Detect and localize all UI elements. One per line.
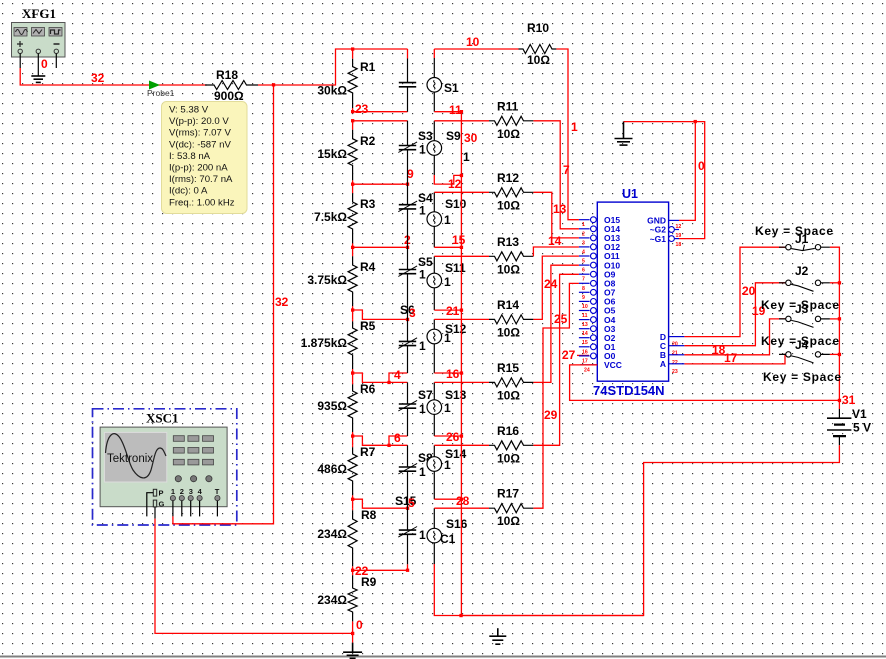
svg-text:8: 8 — [582, 286, 585, 292]
wire net 4 jog — [353, 373, 408, 382]
svg-text:7: 7 — [582, 277, 585, 283]
svg-text:10Ω: 10Ω — [497, 514, 520, 528]
controlled switch S11 — [427, 261, 466, 289]
svg-text:1: 1 — [463, 150, 470, 164]
wire R16 to O9 — [533, 274, 579, 445]
svg-text:1: 1 — [444, 213, 451, 227]
wire S12 bottom lead — [433, 344, 435, 373]
svg-text:1: 1 — [419, 204, 426, 218]
resistor R1 — [317, 49, 375, 112]
svg-text:17: 17 — [582, 358, 588, 364]
wire XFG1 - terminal stub — [55, 54, 57, 69]
svg-text:900Ω: 900Ω — [214, 89, 244, 103]
wire S11 bottom lead — [433, 288, 435, 310]
svg-text:6: 6 — [394, 431, 401, 445]
junction N2 — [351, 183, 354, 186]
switch S8 — [398, 445, 433, 508]
wire S12 to net30 — [434, 372, 461, 374]
svg-text:22: 22 — [672, 360, 678, 366]
svg-text:1: 1 — [444, 275, 451, 289]
svg-text:486Ω: 486Ω — [317, 462, 347, 476]
svg-text:R5: R5 — [360, 319, 376, 333]
wire S14 top lead — [433, 445, 435, 456]
svg-text:4: 4 — [394, 368, 401, 382]
resistor R15 — [489, 361, 533, 403]
junction ground net — [694, 120, 697, 123]
svg-text:1: 1 — [419, 268, 426, 282]
resistor R3 — [314, 184, 376, 247]
wire S9 to net30 staircase — [434, 175, 461, 184]
wire S12 top lead — [433, 319, 435, 329]
U1 pin O5 — [579, 306, 616, 319]
junction N1a — [351, 110, 354, 113]
svg-text:16: 16 — [582, 349, 588, 355]
wire N6 upper link — [389, 436, 408, 445]
svg-text:30: 30 — [464, 131, 478, 145]
svg-text:22: 22 — [355, 564, 369, 578]
junction net30 r5 — [460, 371, 463, 374]
svg-text:V: 5.38 V: V: 5.38 V — [169, 105, 209, 116]
wire net 5 jog — [353, 499, 408, 508]
svg-text:1: 1 — [419, 465, 426, 479]
U1 pin C — [660, 341, 685, 357]
U1 pin O8 — [579, 279, 616, 292]
wire XSC1 ch4 stub — [199, 501, 201, 517]
svg-text:5: 5 — [582, 259, 585, 265]
svg-text:0: 0 — [41, 57, 48, 71]
U1 pin O1 — [579, 342, 616, 355]
resistor R8 — [317, 508, 376, 570]
U1 pin O2 — [579, 333, 616, 346]
wire S14 bottom lead — [433, 471, 435, 499]
wire net 0 bottom — [155, 632, 352, 634]
wire S13 bottom lead — [433, 414, 435, 436]
svg-text:3: 3 — [409, 306, 416, 320]
svg-text:S1: S1 — [444, 81, 459, 95]
U1 pin O13 — [579, 233, 620, 246]
junction N8 — [351, 569, 354, 572]
wire XFG1 + terminal down — [19, 54, 21, 69]
wire net 17 — [684, 354, 785, 364]
svg-text:S7: S7 — [418, 388, 433, 402]
svg-text:V(dc): -587 nV: V(dc): -587 nV — [169, 139, 231, 150]
wire XSC1 ch1 to probe net — [173, 85, 274, 524]
svg-text:S3: S3 — [418, 129, 433, 143]
wire XSC1 G down — [154, 507, 156, 519]
net stub O0 — [577, 354, 589, 356]
IC U1 74STD154N body — [593, 187, 669, 398]
svg-text:J1: J1 — [795, 232, 809, 246]
svg-text:10: 10 — [582, 304, 588, 310]
wire S9 top lead — [433, 121, 435, 141]
svg-text:20: 20 — [672, 342, 678, 348]
switch J3 — [779, 302, 830, 327]
resistor R14 — [489, 298, 533, 340]
svg-text:P: P — [159, 489, 164, 498]
junction N1b — [351, 119, 354, 122]
U1 pin B — [660, 350, 685, 366]
wire XSC1 ch2 stub — [181, 501, 183, 517]
switch S5 — [398, 247, 433, 319]
svg-text:R16: R16 — [497, 424, 519, 438]
wire net 20 — [684, 247, 785, 336]
svg-text:1: 1 — [582, 222, 585, 228]
svg-text:1: 1 — [419, 528, 426, 542]
resistor R4 — [307, 247, 375, 310]
svg-text:30kΩ: 30kΩ — [317, 84, 347, 98]
junction rail J3 — [838, 317, 841, 320]
svg-text:935Ω: 935Ω — [317, 399, 347, 413]
junction N3 — [351, 246, 354, 249]
resistor R13 — [489, 235, 533, 276]
svg-text:1: 1 — [444, 401, 451, 415]
U1 pin O0 — [579, 351, 616, 364]
svg-text:1: 1 — [444, 331, 451, 345]
svg-text:5 V: 5 V — [853, 421, 871, 435]
controlled switch S10 — [427, 197, 467, 227]
svg-text:10Ω: 10Ω — [527, 53, 550, 67]
wire XSC1 ch1 stub — [172, 501, 174, 517]
wire G1 pin up — [624, 122, 705, 239]
switch S4 — [398, 184, 433, 247]
wire J3 to rail — [830, 318, 840, 320]
wire R15 to O10 — [533, 265, 579, 382]
svg-text:1: 1 — [419, 402, 426, 416]
junction rail J2 — [838, 281, 841, 284]
svg-text:T: T — [215, 487, 220, 496]
wire net 23 lower — [353, 120, 408, 122]
wire net 22 — [353, 564, 408, 570]
U1 pin O9 — [579, 269, 616, 282]
wire net 3 jog — [353, 310, 408, 319]
svg-text:28: 28 — [456, 494, 470, 508]
resistor R12 — [489, 171, 533, 213]
wire XSC1 ch3 stub — [190, 501, 192, 517]
wire rail stub to cap — [407, 49, 409, 59]
svg-text:10Ω: 10Ω — [497, 127, 520, 141]
svg-text:G: G — [159, 499, 165, 508]
wire net 19 — [684, 283, 785, 346]
wire R12 to O13 — [533, 192, 579, 238]
U1 pin O14 — [579, 224, 620, 237]
wire S to R15 — [434, 381, 489, 383]
svg-text:32: 32 — [275, 295, 289, 309]
wire top rail net 10 — [353, 48, 408, 50]
wire S11 top lead — [433, 256, 435, 273]
svg-text:R12: R12 — [497, 171, 519, 185]
U1 pin O7 — [579, 288, 616, 301]
wire S14 to net30 — [434, 498, 461, 500]
U1 pin D — [660, 332, 685, 348]
wire N5 rail stub — [352, 373, 354, 382]
junction net30 r4 — [460, 309, 463, 312]
svg-text:31: 31 — [842, 393, 856, 407]
svg-text:R1: R1 — [360, 60, 376, 74]
wire VCC to rail — [570, 365, 840, 401]
svg-text:24: 24 — [584, 368, 590, 374]
wire net 6 jog — [353, 436, 408, 445]
svg-text:32: 32 — [91, 71, 105, 85]
svg-text:26: 26 — [446, 430, 460, 444]
svg-text:S9: S9 — [446, 129, 461, 143]
svg-text:1: 1 — [571, 120, 578, 134]
resistor R2 — [317, 121, 375, 184]
svg-text:23: 23 — [355, 102, 369, 116]
controlled switch S14 — [427, 447, 467, 472]
svg-text:3.75kΩ: 3.75kΩ — [307, 273, 347, 287]
svg-text:11: 11 — [449, 103, 462, 117]
wire bottom rail — [461, 615, 644, 617]
junction N5 mid — [387, 381, 390, 384]
svg-text:VCC: VCC — [604, 360, 622, 370]
svg-text:R4: R4 — [360, 260, 376, 274]
wire S13 top lead — [433, 382, 435, 399]
svg-text:I(rms): 70.7 nA: I(rms): 70.7 nA — [169, 174, 233, 185]
controlled switch S12 — [427, 322, 467, 345]
resistor R5 — [301, 319, 376, 373]
junction N7 — [351, 498, 354, 501]
wire N4 rail stub — [352, 310, 354, 319]
svg-text:23: 23 — [672, 369, 678, 375]
svg-text:27: 27 — [562, 348, 576, 362]
svg-text:S10: S10 — [445, 197, 467, 211]
switch J4 — [779, 338, 830, 363]
wire S to R13 — [434, 255, 489, 257]
switch S6 — [398, 303, 426, 373]
svg-text:V(rms): 7.07 V: V(rms): 7.07 V — [169, 128, 231, 139]
U1 pin ~G1 — [650, 234, 682, 248]
svg-text:Key = Space: Key = Space — [763, 370, 842, 384]
sheet bottom edge — [0, 656, 886, 658]
svg-text:R2: R2 — [360, 134, 376, 148]
svg-text:0: 0 — [356, 618, 363, 632]
oscilloscope XSC1 — [93, 409, 237, 525]
U1 pin O11 — [579, 251, 620, 264]
svg-text:V1: V1 — [852, 407, 867, 421]
wire R10 to net1 vertical — [556, 49, 579, 220]
svg-text:7: 7 — [563, 163, 570, 177]
wire S9 bottom lead — [433, 155, 435, 175]
svg-text:234Ω: 234Ω — [317, 593, 347, 607]
resistor R11 — [489, 99, 533, 141]
wire net 2 — [353, 246, 408, 248]
resistor R18 — [205, 68, 258, 103]
svg-text:17: 17 — [724, 351, 738, 365]
svg-text:R17: R17 — [497, 487, 519, 501]
svg-text:U1: U1 — [622, 187, 638, 201]
wire net 11 — [434, 111, 461, 113]
wire S to R17 — [434, 507, 489, 509]
wire S11 to net30 — [434, 309, 461, 311]
junction net30 r7 — [460, 498, 463, 501]
probe Probe1 arrow — [147, 81, 175, 99]
svg-text:15: 15 — [582, 340, 588, 346]
svg-text:18: 18 — [676, 242, 682, 248]
wire J4 to rail — [830, 353, 840, 355]
wire net 9 — [353, 183, 408, 185]
svg-text:Freq.: 1.00 kHz: Freq.: 1.00 kHz — [169, 197, 235, 208]
svg-text:R15: R15 — [497, 361, 519, 375]
svg-text:7.5kΩ: 7.5kΩ — [314, 210, 347, 224]
wire S16 bottom to rail — [434, 564, 461, 616]
svg-text:9: 9 — [582, 295, 585, 301]
controlled switch S9 — [427, 129, 470, 164]
wire S16 bottom lead — [433, 543, 435, 564]
svg-text:1.875kΩ: 1.875kΩ — [301, 336, 348, 350]
ground bottom middle — [489, 628, 506, 644]
svg-text:R18: R18 — [216, 68, 238, 82]
wire S10 top lead — [433, 192, 435, 212]
U1 pin O3 — [579, 324, 616, 337]
svg-text:10Ω: 10Ω — [497, 388, 520, 402]
junction net30 r6 — [460, 434, 463, 437]
U1 pin GND — [647, 216, 681, 230]
svg-text:1: 1 — [444, 458, 451, 472]
wire GND pin up — [679, 122, 695, 221]
junction N6 mid — [387, 444, 390, 447]
svg-text:13: 13 — [582, 322, 588, 328]
U1 pin ~G2 — [650, 225, 682, 239]
svg-text:11: 11 — [582, 313, 588, 319]
svg-text:1: 1 — [419, 339, 426, 353]
wire net 23 upper — [353, 111, 408, 113]
resistor R7 — [317, 445, 375, 499]
resistor R17 — [489, 487, 533, 529]
wire S to R11 — [434, 120, 489, 122]
controlled switch S13 — [427, 388, 467, 415]
wire S to R14 — [434, 318, 489, 320]
svg-text:R11: R11 — [497, 99, 519, 113]
resistor R9 — [317, 570, 376, 633]
svg-text:16: 16 — [446, 367, 460, 381]
wire S1 bottom lead — [433, 92, 435, 112]
svg-text:S16: S16 — [446, 517, 468, 531]
U1 pin O15 — [579, 215, 620, 228]
wire net 32 from XFG1 to R18 — [20, 68, 207, 85]
svg-text:4: 4 — [582, 249, 585, 255]
svg-text:25: 25 — [554, 312, 568, 326]
junction net30 r3 — [460, 246, 463, 249]
svg-text:~G1: ~G1 — [650, 234, 667, 244]
ground below XFG1 — [31, 76, 45, 82]
wire N7 rail stub — [352, 499, 354, 508]
svg-text:R10: R10 — [527, 21, 549, 35]
svg-text:1: 1 — [171, 487, 175, 496]
junction at probe vertical — [272, 83, 275, 86]
wire S to R12 — [434, 191, 489, 193]
svg-text:2: 2 — [180, 487, 184, 496]
svg-text:I: 53.8 nA: I: 53.8 nA — [169, 151, 211, 162]
wire S16 top lead — [433, 508, 435, 528]
svg-text:20: 20 — [742, 284, 756, 298]
svg-text:Probe1: Probe1 — [147, 88, 175, 98]
controlled switch S16 — [427, 517, 468, 546]
svg-text:S11: S11 — [445, 261, 466, 275]
svg-text:0: 0 — [698, 159, 705, 173]
switch S3 — [398, 121, 433, 184]
junction N8 right — [406, 569, 409, 572]
wire N5 upper link — [389, 373, 408, 382]
junction rail J4 — [838, 353, 841, 356]
svg-text:V(p-p): 20.0 V: V(p-p): 20.0 V — [169, 116, 229, 127]
svg-text:10Ω: 10Ω — [497, 325, 520, 339]
svg-text:10: 10 — [466, 35, 480, 49]
svg-text:21: 21 — [672, 351, 678, 357]
svg-text:R6: R6 — [360, 382, 376, 396]
wire N6 rail stub — [352, 436, 354, 445]
junction net 31 — [838, 399, 841, 402]
junction bottom rail — [459, 614, 462, 617]
svg-text:J4: J4 — [795, 338, 809, 352]
wire S to R16 — [434, 444, 489, 446]
probe measurement box Probe1 — [162, 102, 248, 214]
svg-text:3: 3 — [582, 240, 585, 246]
svg-text:2: 2 — [582, 231, 585, 237]
wire S10 bottom lead — [433, 226, 435, 247]
wire XSC1 G to bottom rail — [154, 519, 156, 634]
svg-text:29: 29 — [544, 408, 558, 422]
U1 pin A — [660, 359, 685, 375]
svg-text:XFG1: XFG1 — [22, 6, 56, 21]
svg-text:5: 5 — [408, 496, 415, 510]
wire J1 to rail — [830, 247, 840, 400]
svg-text:15kΩ: 15kΩ — [317, 147, 347, 161]
wire S10 to net30 — [434, 246, 461, 248]
svg-text:S13: S13 — [445, 388, 467, 402]
junction bottom node — [351, 632, 354, 635]
svg-text:R14: R14 — [497, 298, 519, 312]
svg-text:R8: R8 — [361, 508, 377, 522]
switch J1 — [779, 232, 830, 251]
resistor R10 — [519, 21, 557, 67]
U1 pin O6 — [579, 297, 616, 310]
wire R11 to O14 — [533, 121, 579, 229]
junction N4 right — [406, 318, 409, 321]
svg-text:14: 14 — [582, 331, 588, 337]
svg-text:10Ω: 10Ω — [497, 262, 520, 276]
svg-text:XSC1: XSC1 — [146, 411, 179, 426]
wire net 18 — [684, 319, 785, 355]
junction net30 r2 — [460, 174, 463, 177]
junction N5 — [351, 371, 354, 374]
wire R13 to O12 — [533, 247, 579, 256]
svg-text:I(dc): 0 A: I(dc): 0 A — [169, 186, 208, 197]
svg-text:Tektronix: Tektronix — [107, 453, 153, 465]
ground below ladder — [343, 643, 362, 659]
junction ladder top — [351, 47, 354, 50]
wire R17 to O8 — [533, 283, 579, 508]
capacitor symbol top — [399, 59, 416, 112]
junction N4 — [351, 308, 354, 311]
svg-text:10Ω: 10Ω — [497, 451, 520, 465]
svg-text:6: 6 — [582, 268, 585, 274]
function generator XFG1 — [12, 6, 66, 57]
svg-text:74STD154N: 74STD154N — [593, 383, 665, 398]
svg-text:14: 14 — [548, 234, 562, 248]
junction N7 right — [406, 507, 409, 510]
svg-text:21: 21 — [446, 304, 460, 318]
wire rail to R10 — [434, 48, 518, 50]
U1 pin O10 — [579, 260, 620, 273]
svg-text:R3: R3 — [360, 197, 376, 211]
svg-text:10Ω: 10Ω — [497, 198, 520, 212]
wire R18 to ladder top rail — [258, 49, 353, 85]
battery V1 — [827, 400, 871, 445]
U1 pin O4 — [579, 315, 616, 328]
wire red stem to ground — [352, 633, 354, 642]
svg-text:234Ω: 234Ω — [317, 527, 347, 541]
svg-text:R13: R13 — [497, 235, 519, 249]
